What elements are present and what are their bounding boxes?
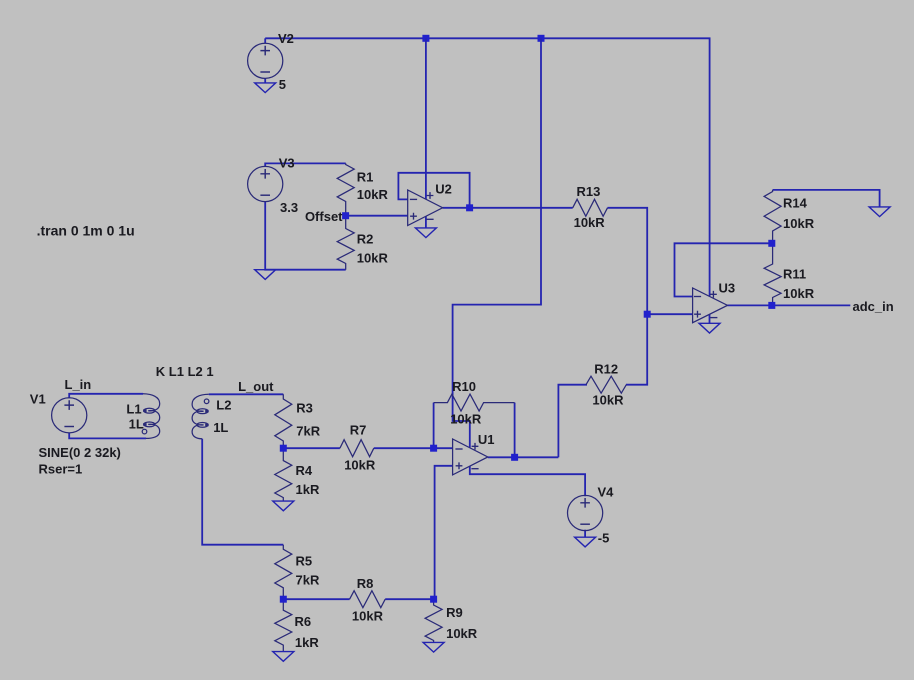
- svg-text:K L1 L2 1: K L1 L2 1: [156, 364, 214, 379]
- wire L2 bottom to R5: [202, 439, 283, 545]
- resistor R1: [337, 163, 354, 215]
- phase dot (L1): [142, 429, 147, 434]
- ground (V2): [255, 83, 276, 93]
- wire L1 bottom to V1: [69, 433, 146, 439]
- node junction U1 output: [511, 454, 518, 461]
- svg-text:U1: U1: [478, 432, 495, 447]
- resistor R8: [350, 591, 386, 608]
- svg-text:10kR: 10kR: [592, 393, 624, 408]
- svg-text:1L: 1L: [129, 416, 144, 431]
- svg-text:R14: R14: [783, 195, 808, 210]
- node junction R3/R4: [280, 445, 287, 452]
- wire V3 minus to ground and R2: [265, 202, 346, 270]
- resistor R5: [275, 545, 292, 600]
- svg-text:R13: R13: [577, 184, 601, 199]
- wire top +5V rail: [265, 38, 709, 296]
- inductor L2 (secondary coil): [192, 394, 209, 439]
- ground (U2 V-): [415, 228, 436, 238]
- svg-text:R11: R11: [783, 266, 806, 281]
- resistor R4: [275, 448, 292, 501]
- svg-text:10kR: 10kR: [783, 286, 815, 301]
- ground (U3 V-): [699, 323, 720, 333]
- node junction U2 output: [466, 204, 473, 211]
- ground (R4): [273, 501, 294, 511]
- wire U2 V+ supply drop: [425, 38, 427, 199]
- wire U1 output: [488, 456, 559, 458]
- wire node A down to R12: [626, 314, 647, 385]
- svg-text:10kR: 10kR: [783, 216, 815, 231]
- wire R14 top to ground: [773, 190, 880, 207]
- svg-text:adc_in: adc_in: [853, 299, 894, 314]
- wire node A to U3 +in: [647, 313, 692, 315]
- wire V1 top to L1: [69, 394, 143, 398]
- voltage source V4: [568, 495, 603, 530]
- svg-text:1kR: 1kR: [295, 635, 319, 650]
- svg-text:R6: R6: [295, 614, 312, 629]
- wire V3 to R1: [265, 163, 346, 166]
- wire R10 right leg: [514, 403, 516, 458]
- svg-text:7kR: 7kR: [296, 573, 320, 588]
- svg-text:R8: R8: [357, 576, 374, 591]
- svg-text:R4: R4: [296, 463, 313, 478]
- wire L_out to R3: [209, 393, 283, 395]
- inductor L1 (primary coil): [143, 394, 160, 439]
- wire V2 minus stub: [264, 78, 266, 83]
- wire U1 +in down to R8/R9 node: [435, 466, 453, 599]
- svg-text:L1: L1: [126, 401, 141, 416]
- svg-text:.tran 0 1m 0 1u: .tran 0 1m 0 1u: [37, 222, 135, 238]
- svg-text:Rser=1: Rser=1: [39, 462, 83, 477]
- svg-text:-5: -5: [598, 531, 610, 546]
- wire V4 minus stub: [584, 530, 586, 538]
- ground (R6): [273, 652, 294, 662]
- wire node Offset to U2 +in: [346, 215, 408, 217]
- svg-text:10kR: 10kR: [450, 412, 482, 427]
- svg-text:10kR: 10kR: [357, 251, 389, 266]
- svg-text:V3: V3: [279, 156, 295, 171]
- svg-text:U3: U3: [719, 280, 736, 295]
- wire R5/R6 node to R8: [283, 598, 349, 600]
- resistor R6: [275, 599, 292, 651]
- node junction top rail / U2 supply: [422, 35, 429, 42]
- ground (V3): [255, 270, 276, 280]
- svg-text:V4: V4: [598, 484, 615, 499]
- wire U1 V+ supply drop: [453, 38, 541, 447]
- wire R12 to U1 output: [558, 385, 587, 458]
- wire R8 to R9 node: [385, 598, 433, 600]
- wire R7 to U1 -in: [374, 447, 453, 449]
- wire U2 V- stub: [425, 216, 427, 228]
- svg-text:5: 5: [279, 77, 286, 92]
- wire U3 feedback loop: [675, 243, 772, 296]
- wire U1 V- to V4: [470, 466, 585, 496]
- wire R3/R4 node to R7: [283, 447, 340, 449]
- svg-text:V1: V1: [30, 391, 46, 406]
- svg-text:1kR: 1kR: [296, 482, 320, 497]
- wire R10 left leg: [433, 403, 435, 449]
- node junction A (R13/R12/U3+): [644, 311, 651, 318]
- svg-text:R2: R2: [357, 231, 374, 246]
- ground (V4): [575, 537, 596, 547]
- wire U2 feedback loop: [398, 173, 469, 208]
- node junction R5/R6: [280, 596, 287, 603]
- node junction R14/R11: [768, 240, 775, 247]
- svg-text:7kR: 7kR: [296, 424, 320, 439]
- node junction U1 -in: [430, 445, 437, 452]
- node junction top rail / U1 supply: [538, 35, 545, 42]
- wire U2 output to R13: [443, 207, 573, 209]
- svg-text:10kR: 10kR: [446, 626, 478, 641]
- wire V2 top lead: [264, 38, 266, 43]
- wire R13 to node A: [608, 208, 648, 314]
- resistor R13: [573, 199, 608, 216]
- svg-text:SINE(0 2 32k): SINE(0 2 32k): [39, 445, 121, 460]
- op-amp U2: [408, 190, 443, 226]
- svg-text:10kR: 10kR: [352, 609, 384, 624]
- op-amp U3: [693, 288, 728, 323]
- svg-text:R9: R9: [446, 605, 463, 620]
- ground (R9): [423, 642, 444, 652]
- resistor R2: [337, 216, 354, 270]
- resistor R3: [275, 394, 292, 448]
- resistor R7: [340, 440, 374, 457]
- svg-text:R7: R7: [350, 423, 367, 438]
- svg-text:L2: L2: [216, 398, 231, 413]
- resistor R10: [434, 394, 515, 411]
- resistor R9: [425, 599, 442, 642]
- op-amp U1: [453, 439, 488, 475]
- svg-text:U2: U2: [435, 181, 452, 196]
- svg-text:R10: R10: [452, 379, 476, 394]
- ground (top right, R14): [869, 207, 890, 217]
- svg-text:R12: R12: [594, 362, 618, 377]
- svg-text:3.3: 3.3: [280, 200, 298, 215]
- voltage source V2: [248, 43, 283, 78]
- voltage source V1: [52, 398, 87, 433]
- resistor R12: [586, 376, 626, 393]
- svg-text:10kR: 10kR: [357, 187, 389, 202]
- svg-text:R5: R5: [296, 554, 313, 569]
- node junction R8/R9: [430, 596, 437, 603]
- voltage source V3: [248, 166, 283, 201]
- phase dot (L2): [204, 399, 209, 404]
- resistor R11: [764, 243, 781, 305]
- svg-text:Offset: Offset: [305, 209, 343, 224]
- svg-text:R1: R1: [357, 169, 374, 184]
- svg-text:L_in: L_in: [65, 377, 92, 392]
- node Offset junction: [342, 212, 349, 219]
- svg-text:R3: R3: [296, 401, 313, 416]
- svg-text:10kR: 10kR: [344, 458, 376, 473]
- svg-text:10kR: 10kR: [574, 215, 606, 230]
- svg-text:V2: V2: [278, 31, 294, 46]
- svg-text:L_out: L_out: [238, 379, 274, 394]
- wire U3 V- stub: [709, 314, 711, 323]
- svg-text:1L: 1L: [213, 420, 228, 435]
- node junction U3 out / adc_in: [768, 302, 775, 309]
- resistor R14: [764, 190, 781, 243]
- wire U3 output to adc_in: [728, 304, 851, 306]
